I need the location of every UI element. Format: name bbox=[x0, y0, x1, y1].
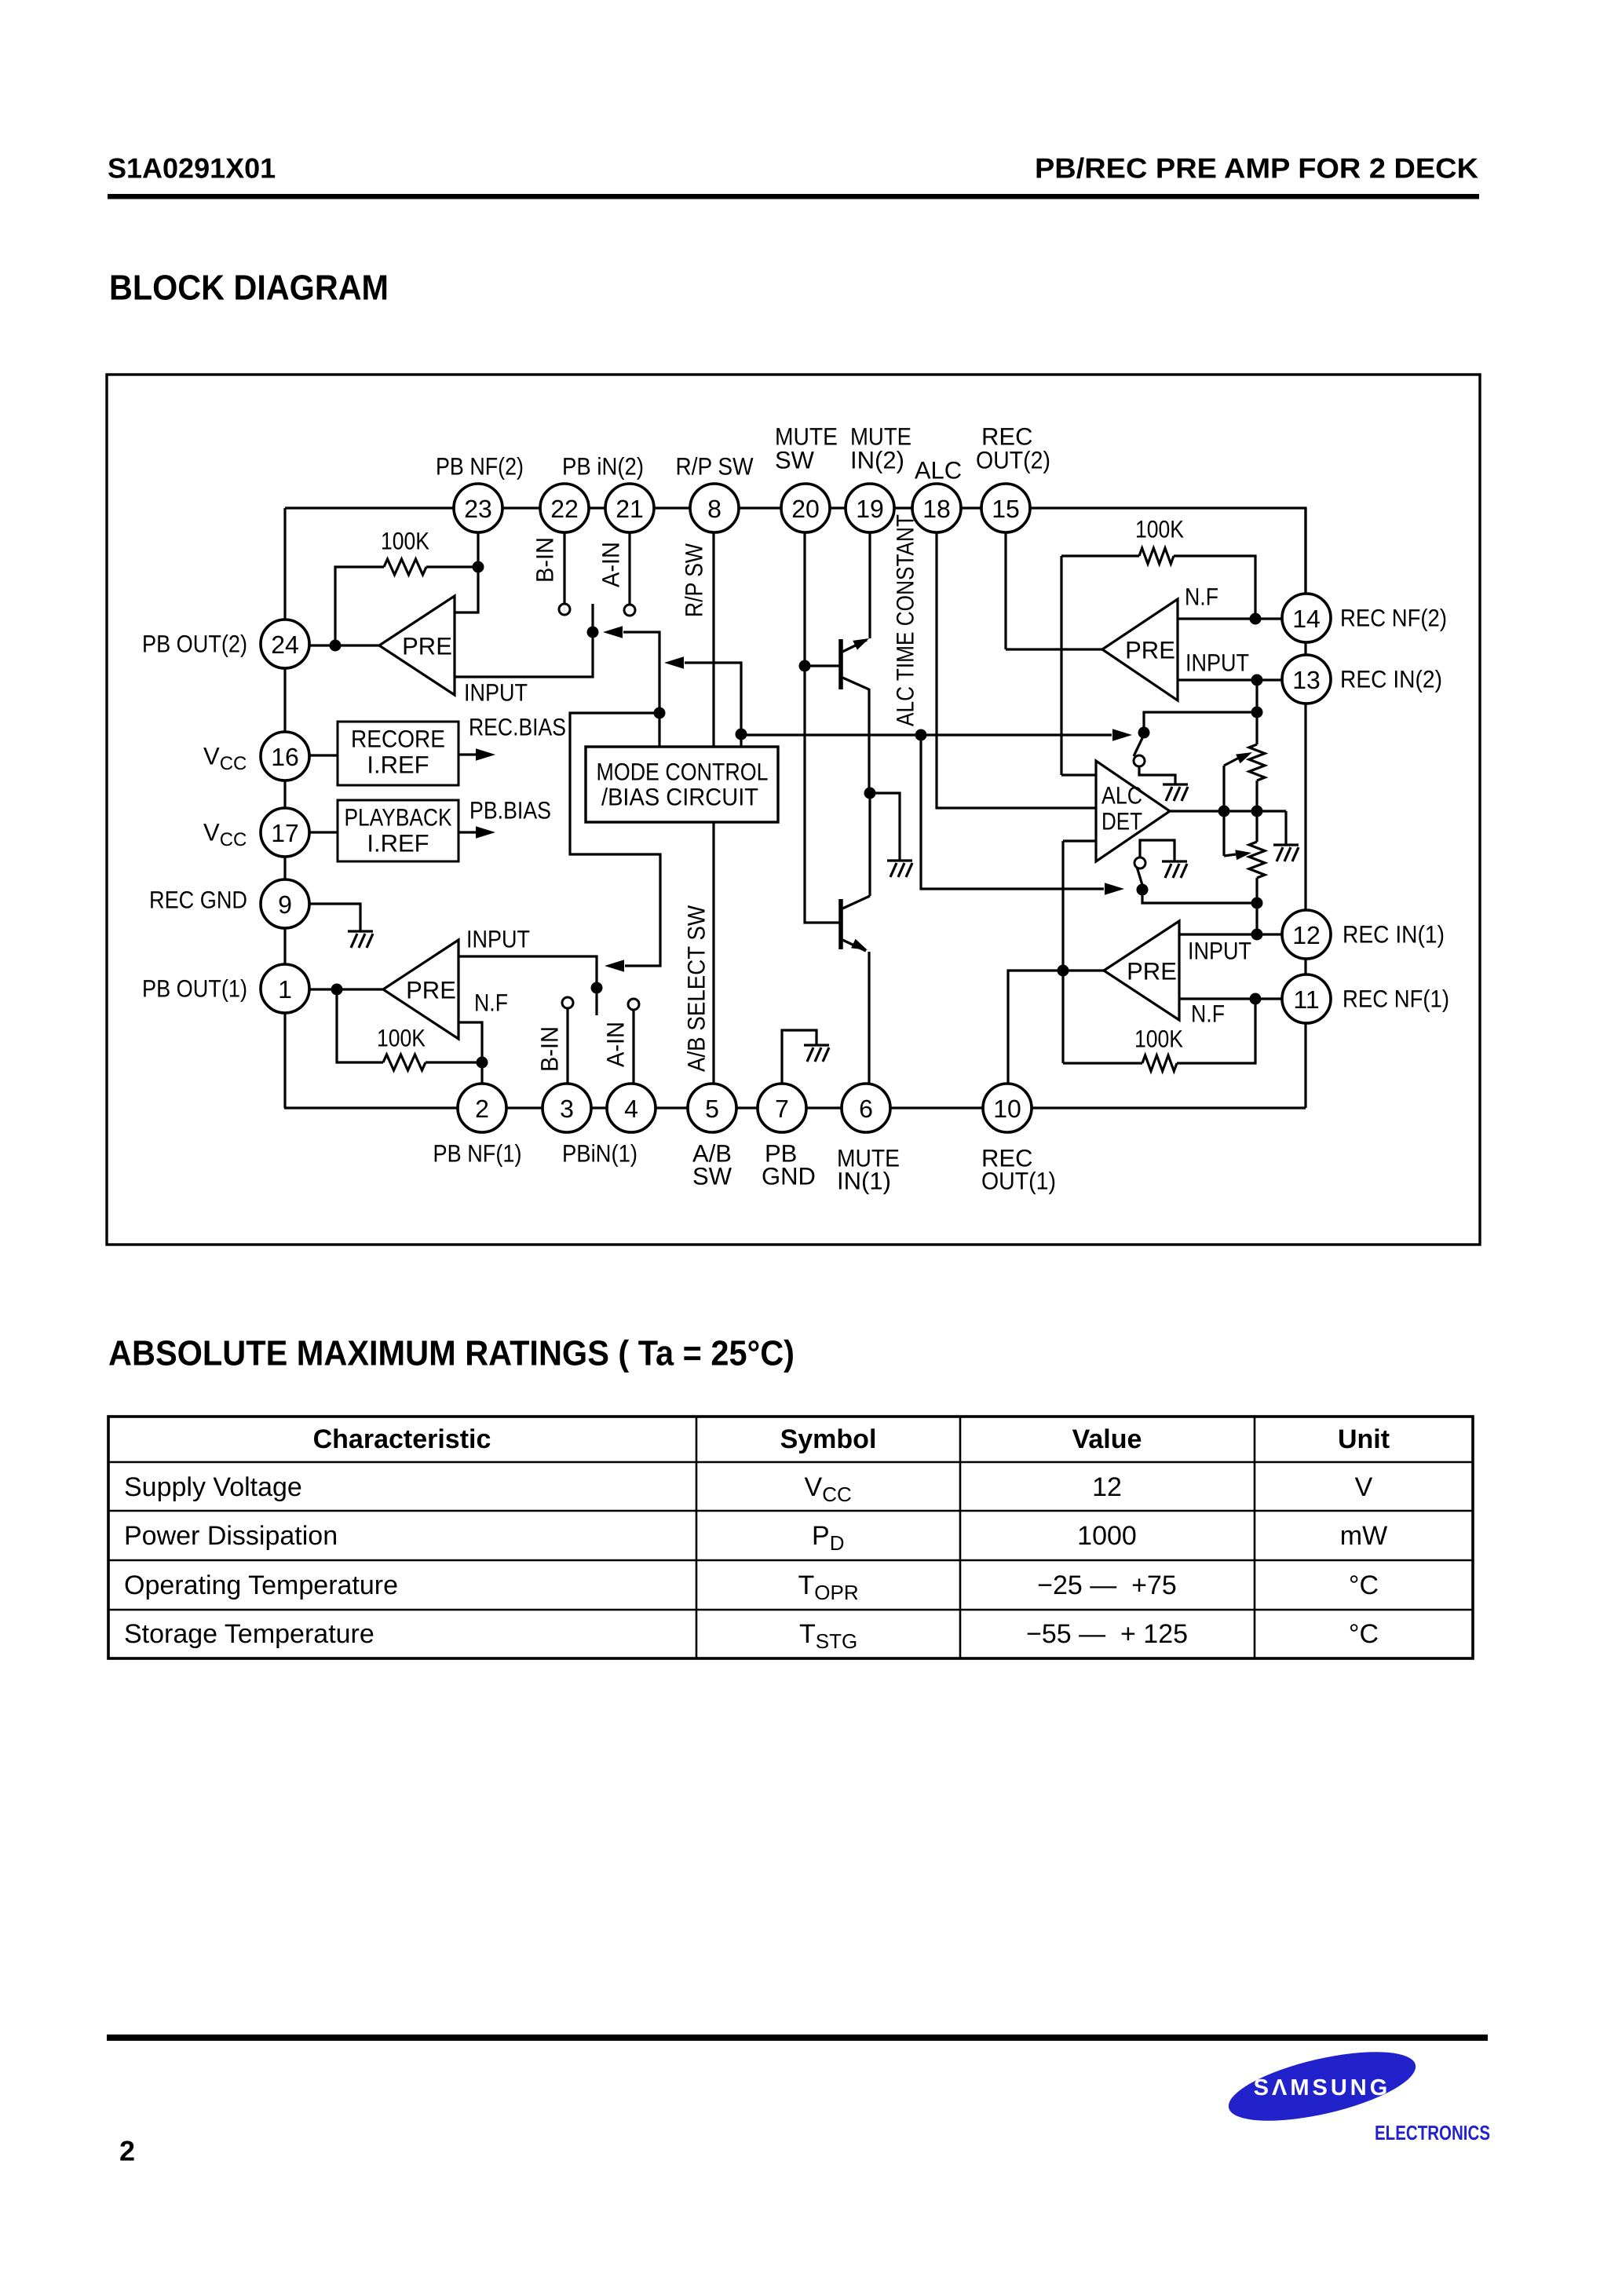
label PBiN(1) bbox=[562, 1140, 637, 1168]
svg-text:15: 15 bbox=[992, 495, 1020, 523]
wire junction to ground stub bbox=[870, 793, 900, 861]
svg-text:Operating Temperature: Operating Temperature bbox=[124, 1570, 398, 1600]
label N.F of PB1 PRE bbox=[474, 989, 508, 1017]
svg-text:4: 4 bbox=[624, 1095, 638, 1123]
wire pin 8 R/P SW to pin 5 A/B SW through mode box bbox=[712, 508, 714, 1108]
svg-text:REC IN(1): REC IN(1) bbox=[1343, 921, 1445, 949]
svg-text:ALC: ALC bbox=[1101, 782, 1142, 810]
page header: title bbox=[1035, 152, 1478, 185]
node REC IN(1) junction bbox=[1251, 929, 1263, 941]
wire right column bus pins 14-13-12-11 to pin 10 bbox=[1304, 508, 1306, 1108]
arrow control to REC switch 2 bbox=[1112, 729, 1132, 741]
svg-text:I.REF: I.REF bbox=[367, 830, 429, 857]
wire INPUT of PB2 PRE to select switch bbox=[455, 632, 593, 677]
node REC1 output feedback junction bbox=[1058, 965, 1069, 977]
diagram border frame bbox=[107, 375, 1480, 1245]
pin 22 bbox=[540, 484, 589, 532]
header rule bbox=[108, 194, 1479, 199]
wire pin 20 MUTE SW down to Q2 base bbox=[805, 508, 841, 923]
node REC NF(2) junction bbox=[1250, 613, 1262, 625]
ground ALC output bbox=[1273, 845, 1299, 861]
op-amp U3 PRE record deck2 bbox=[1102, 599, 1178, 700]
svg-text:−55 — + 125: −55 — + 125 bbox=[1026, 1619, 1188, 1649]
wire REC2 PRE output bbox=[1006, 648, 1102, 650]
svg-text:INPUT: INPUT bbox=[466, 926, 530, 953]
wire Q1 base bbox=[805, 664, 841, 667]
wire SW4 contact to ground bbox=[1140, 840, 1174, 861]
wire pin 18 ALC to ALC DET input bbox=[937, 508, 1096, 808]
node pin2 feedback junction bbox=[477, 1057, 488, 1069]
svg-text:REC GND: REC GND bbox=[149, 887, 247, 914]
svg-text:2: 2 bbox=[475, 1095, 489, 1123]
switch SW4 lever bbox=[1137, 867, 1142, 885]
table row Supply Voltage bbox=[124, 1472, 1373, 1506]
label INPUT of PB1 PRE bbox=[466, 926, 530, 953]
wire N.F to pin 11 bbox=[1179, 997, 1288, 1000]
wire between attenuator resistors bbox=[1255, 781, 1258, 842]
terminal B-IN deck1 open contact bbox=[562, 997, 573, 1008]
node pin23 feedback junction bbox=[473, 561, 484, 573]
svg-text:ABSOLUTE MAXIMUM RATINGS ( Ta: ABSOLUTE MAXIMUM RATINGS ( Ta = 25°C) bbox=[108, 1333, 795, 1373]
svg-text:100K: 100K bbox=[1135, 516, 1184, 543]
pin 5 bbox=[688, 1084, 736, 1132]
node ALC output wiper junction bbox=[1218, 806, 1230, 817]
pin 2 bbox=[458, 1084, 506, 1132]
terminal A-IN deck2 open contact bbox=[624, 605, 635, 616]
wire feedback loop down from output node bbox=[337, 989, 383, 1062]
label MUTE IN(2) bbox=[850, 423, 911, 474]
svg-text:/BIAS CIRCUIT: /BIAS CIRCUIT bbox=[601, 784, 758, 811]
op-amp U5 ALC DET bbox=[1096, 761, 1170, 861]
svg-text:IN(1): IN(1) bbox=[837, 1168, 891, 1195]
svg-text:PB OUT(1): PB OUT(1) bbox=[142, 975, 247, 1003]
block PLAYBACK I.REF bbox=[338, 800, 458, 861]
wire pin 16 to RECORE I.REF bbox=[309, 754, 338, 756]
svg-text:12: 12 bbox=[1292, 921, 1321, 949]
resistor VR2 lower attenuator bbox=[1249, 842, 1265, 878]
svg-text:PLAYBACK: PLAYBACK bbox=[345, 804, 452, 832]
label R/P SW rotated bbox=[681, 543, 708, 617]
label REC IN(2) bbox=[1340, 666, 1442, 693]
wire control branch down to REC switch 1 bbox=[921, 735, 1104, 889]
wire left column bus pins 24-16-17-9-1 bbox=[283, 508, 286, 1108]
svg-text:PRE: PRE bbox=[1127, 958, 1177, 985]
Samsung logo ellipse bbox=[1222, 2038, 1421, 2134]
pin 3 bbox=[542, 1084, 591, 1132]
wire pin 15 REC OUT(2) stub down bbox=[1004, 532, 1006, 649]
wire B-IN contact to pin 3 bbox=[566, 1008, 568, 1084]
svg-text:24: 24 bbox=[271, 631, 299, 659]
svg-text:PRE: PRE bbox=[406, 977, 456, 1004]
wire REC.BIAS output arrow bbox=[458, 748, 495, 761]
svg-text:PB NF(2): PB NF(2) bbox=[436, 453, 524, 481]
label PB.BIAS bbox=[469, 797, 551, 824]
svg-text:16: 16 bbox=[271, 743, 299, 771]
svg-text:2: 2 bbox=[119, 2135, 135, 2167]
wire pin 21 to A-IN contact bbox=[628, 508, 630, 605]
label A-IN deck2 rotated bbox=[597, 542, 625, 587]
svg-text:N.F: N.F bbox=[1191, 1000, 1225, 1028]
switch SW2 common node bbox=[587, 627, 599, 638]
svg-text:B-IN: B-IN bbox=[536, 1026, 564, 1072]
pin 20 bbox=[781, 484, 830, 532]
node PB OUT(1) junction bbox=[331, 984, 343, 996]
svg-text:Value: Value bbox=[1072, 1424, 1142, 1454]
svg-text:100K: 100K bbox=[1134, 1026, 1183, 1053]
wire INPUT to pin 12 bbox=[1179, 933, 1288, 935]
label N.F of REC1 PRE bbox=[1191, 1000, 1225, 1028]
svg-text:V: V bbox=[1355, 1472, 1373, 1502]
resistor 100K deck1 PB feedback bbox=[383, 1055, 426, 1070]
svg-text:SΛMSUNG: SΛMSUNG bbox=[1254, 2075, 1391, 2100]
wire INPUT to pin 13 bbox=[1178, 678, 1288, 681]
pin 9 bbox=[261, 879, 309, 928]
svg-text:18: 18 bbox=[922, 495, 951, 523]
value label 100K bbox=[381, 528, 429, 555]
label MUTE IN(1) bbox=[837, 1145, 900, 1195]
pin 4 bbox=[607, 1084, 656, 1132]
pin 19 bbox=[846, 484, 894, 532]
svg-text:11: 11 bbox=[1293, 985, 1319, 1014]
wire resistor to pin 23 node bbox=[426, 565, 478, 568]
op-amp U1 PRE playback deck2 bbox=[379, 596, 455, 695]
svg-text:Symbol: Symbol bbox=[780, 1424, 877, 1454]
label PB GND bbox=[762, 1140, 816, 1190]
svg-text:21: 21 bbox=[616, 495, 644, 523]
svg-text:5: 5 bbox=[705, 1095, 719, 1123]
svg-text:R/P SW: R/P SW bbox=[681, 543, 708, 617]
wire bottom bus pins 2-3-4-5-7-6-10 bbox=[284, 1106, 1306, 1109]
ground Q collector bbox=[887, 861, 912, 877]
table row Power Dissipation bbox=[124, 1521, 1387, 1555]
wire pin 1 to op-amp input node bbox=[309, 988, 383, 990]
svg-text:°C: °C bbox=[1349, 1570, 1379, 1600]
wire pin 2 stub up bbox=[480, 1062, 483, 1084]
wire mode control to REC mute switch 2 bbox=[741, 733, 1112, 736]
svg-text:100K: 100K bbox=[381, 528, 429, 555]
wire N.F to pin 14 bbox=[1178, 617, 1288, 620]
footer rule bbox=[107, 2035, 1488, 2041]
pin 23 bbox=[454, 484, 502, 532]
svg-text:100K: 100K bbox=[377, 1025, 426, 1052]
svg-text:ELECTRONICS: ELECTRONICS bbox=[1375, 2121, 1490, 2144]
label PB iN(2) bbox=[562, 453, 644, 481]
ground REC GND bbox=[348, 931, 373, 948]
svg-text:N.F: N.F bbox=[474, 989, 508, 1017]
pin 21 bbox=[605, 484, 654, 532]
wire pin 19 MUTE IN(2) stub bbox=[868, 508, 871, 638]
node ALC output attenuator junction bbox=[1251, 806, 1263, 817]
svg-text:N.F: N.F bbox=[1185, 583, 1218, 611]
label REC IN(1) bbox=[1343, 921, 1445, 949]
label MUTE SW bbox=[775, 423, 838, 474]
pin 13 bbox=[1282, 655, 1331, 704]
table column dividers bbox=[696, 1417, 1255, 1658]
ground SW4 bbox=[1162, 861, 1187, 878]
label B-IN deck2 rotated bbox=[532, 537, 559, 583]
svg-text:12: 12 bbox=[1092, 1472, 1122, 1502]
svg-text:S1A0291X01: S1A0291X01 bbox=[108, 152, 276, 185]
wire pin 9 to ground bbox=[309, 904, 360, 931]
transistor Q1 mute deck2 bbox=[841, 638, 869, 793]
node REC NF(1) junction bbox=[1250, 993, 1262, 1005]
switch SW3 lever bbox=[1134, 738, 1142, 756]
pin 16 bbox=[261, 732, 309, 781]
svg-text:INPUT: INPUT bbox=[464, 679, 528, 707]
pin 12 bbox=[1282, 910, 1331, 959]
wire feedback loop up from output node bbox=[335, 567, 384, 645]
table frame bbox=[108, 1417, 1473, 1658]
svg-text:PB NF(1): PB NF(1) bbox=[433, 1140, 522, 1168]
svg-text:I.REF: I.REF bbox=[367, 751, 429, 779]
svg-text:22: 22 bbox=[550, 495, 579, 523]
svg-text:PB/REC PRE AMP FOR 2 DECK: PB/REC PRE AMP FOR 2 DECK bbox=[1035, 152, 1478, 185]
svg-text:PRE: PRE bbox=[1125, 637, 1175, 664]
svg-text:PB.BIAS: PB.BIAS bbox=[469, 797, 551, 824]
svg-text:°C: °C bbox=[1349, 1619, 1379, 1649]
svg-text:6: 6 bbox=[859, 1095, 873, 1123]
svg-text:Characteristic: Characteristic bbox=[313, 1424, 491, 1454]
svg-text:INPUT: INPUT bbox=[1185, 649, 1249, 677]
label R/P SW bbox=[676, 453, 754, 481]
wire REC1 feedback loop bottom bbox=[1177, 999, 1255, 1063]
wire ALC DET output bbox=[1170, 810, 1286, 812]
svg-text:17: 17 bbox=[271, 819, 299, 847]
node Q1 base junction bbox=[799, 660, 811, 672]
svg-text:REC NF(1): REC NF(1) bbox=[1343, 985, 1449, 1013]
wire top bus pins 23-22-21-8-20-19-18-15 to corner bbox=[285, 508, 1306, 618]
label B-IN deck1 rotated bbox=[536, 1026, 564, 1072]
wire REC2 feedback net vertical bbox=[1060, 556, 1062, 775]
svg-text:3: 3 bbox=[560, 1095, 574, 1123]
label REC OUT(2) bbox=[976, 423, 1050, 474]
svg-text:RECORE: RECORE bbox=[351, 726, 445, 753]
wire switch SW4 to attenuator bottom bbox=[1142, 890, 1257, 903]
svg-text:1000: 1000 bbox=[1077, 1521, 1137, 1551]
wire control arrow from mode circuit to SW1 bbox=[570, 713, 660, 966]
svg-text:19: 19 bbox=[856, 495, 884, 523]
table header row bbox=[313, 1424, 1390, 1454]
resistor 100K REC1 feedback bbox=[1142, 1055, 1177, 1071]
wire INPUT of PB1 PRE to select switch bbox=[458, 956, 597, 988]
wire junction down to Q2 bbox=[868, 793, 871, 896]
svg-text:R/P SW: R/P SW bbox=[676, 453, 754, 481]
svg-text:OUT(1): OUT(1) bbox=[981, 1168, 1056, 1195]
svg-text:23: 23 bbox=[464, 495, 492, 523]
wire pin 24 to op-amp input node bbox=[309, 644, 379, 646]
svg-text:SW: SW bbox=[692, 1163, 732, 1190]
wire REC2 feedback loop top bbox=[1061, 554, 1139, 557]
arrow control into mode net bbox=[664, 656, 684, 669]
svg-text:PB iN(2): PB iN(2) bbox=[562, 453, 644, 481]
wire pin 22 to B-IN contact bbox=[563, 508, 565, 604]
wire second control branch bbox=[685, 663, 741, 747]
wire REC IN(2) node down to attenuator bbox=[1255, 680, 1258, 744]
value label 100K bbox=[1135, 516, 1184, 543]
svg-text:9: 9 bbox=[278, 890, 292, 919]
svg-text:7: 7 bbox=[775, 1095, 789, 1123]
block MODE CONTROL / BIAS CIRCUIT bbox=[586, 747, 778, 822]
svg-text:REC IN(2): REC IN(2) bbox=[1340, 666, 1442, 693]
pin 15 bbox=[981, 484, 1030, 532]
svg-text:PBiN(1): PBiN(1) bbox=[562, 1140, 637, 1168]
wire control arrow to mode circuit bbox=[623, 632, 659, 747]
wire ALC DET lower input from REC1 N.F net bbox=[1063, 839, 1096, 842]
switch SW1 lever bbox=[595, 988, 597, 1015]
label N.F of REC2 PRE bbox=[1185, 583, 1218, 611]
pin 14 bbox=[1282, 594, 1331, 642]
pin 1 bbox=[261, 964, 309, 1013]
svg-text:Unit: Unit bbox=[1338, 1424, 1390, 1454]
table row Storage Temperature bbox=[124, 1619, 1379, 1653]
svg-text:REC NF(2): REC NF(2) bbox=[1340, 605, 1447, 632]
node REC IN(2) junction bbox=[1251, 675, 1263, 686]
pin 18 bbox=[912, 484, 961, 532]
svg-text:14: 14 bbox=[1292, 605, 1321, 633]
svg-text:mW: mW bbox=[1340, 1521, 1387, 1551]
node control branch junction bbox=[915, 729, 927, 741]
switch SW3 REC2 mute common bbox=[1138, 727, 1150, 739]
ground SW3 bbox=[1163, 784, 1188, 801]
svg-text:GND: GND bbox=[762, 1163, 816, 1190]
svg-text:13: 13 bbox=[1292, 666, 1321, 694]
resistor 100K REC2 feedback bbox=[1139, 548, 1174, 564]
label REC NF(2) bbox=[1340, 605, 1447, 632]
switch SW2 lever bbox=[591, 604, 594, 632]
svg-text:10: 10 bbox=[993, 1095, 1021, 1123]
svg-text:PRE: PRE bbox=[402, 633, 452, 660]
node mode box second junction bbox=[736, 729, 747, 740]
table row Operating Temperature bbox=[124, 1570, 1379, 1604]
svg-text:BLOCK DIAGRAM: BLOCK DIAGRAM bbox=[109, 268, 389, 308]
wire resistor to pin 2 node bbox=[426, 1061, 482, 1063]
switch SW1 common node bbox=[591, 982, 603, 994]
wire REC1 feedback to vertical bbox=[1063, 1062, 1142, 1064]
svg-text:A-IN: A-IN bbox=[602, 1022, 630, 1067]
pin 6 bbox=[842, 1084, 890, 1132]
table row dividers bbox=[108, 1462, 1473, 1610]
wire N.F to op-amp PB2 bbox=[455, 567, 478, 612]
wire ALC output to ground bbox=[1284, 811, 1287, 845]
label PB NF(2) bbox=[436, 453, 524, 481]
node REC2 switch branch junction bbox=[1251, 707, 1263, 718]
wire ALC DET upper input from REC2 N.F net bbox=[1061, 773, 1096, 776]
svg-text:Storage Temperature: Storage Temperature bbox=[124, 1619, 374, 1649]
wiper arrow to upper variable resistor bbox=[1224, 752, 1252, 811]
wire REC2 branch to switch bbox=[1144, 712, 1257, 733]
svg-text:REC.BIAS: REC.BIAS bbox=[469, 714, 566, 741]
node PB OUT(2) junction bbox=[330, 640, 342, 652]
wire pin 10 REC OUT(1) stub up bbox=[1008, 971, 1104, 1084]
svg-text:20: 20 bbox=[791, 495, 820, 523]
label PB NF(1) bbox=[433, 1140, 522, 1168]
svg-text:ALC: ALC bbox=[915, 457, 962, 484]
label A-IN deck1 rotated bbox=[602, 1022, 630, 1067]
block RECORE I.REF bbox=[338, 722, 458, 785]
wire N.F of PB1 PRE bbox=[458, 1022, 482, 1062]
label VCC pin16 bbox=[203, 743, 247, 774]
svg-text:B-IN: B-IN bbox=[532, 537, 559, 583]
svg-text:8: 8 bbox=[707, 495, 721, 523]
arrow control to SW1 bbox=[605, 960, 624, 972]
node Q1-Q2 collector junction bbox=[864, 788, 876, 799]
node attenuator bottom junction bbox=[1251, 898, 1263, 909]
section heading ABSOLUTE MAXIMUM RATINGS bbox=[108, 1333, 795, 1373]
svg-text:Supply Voltage: Supply Voltage bbox=[124, 1472, 302, 1502]
terminal SW3 open contact bbox=[1134, 755, 1145, 766]
svg-text:IN(2): IN(2) bbox=[850, 447, 904, 474]
pin 24 bbox=[261, 620, 309, 668]
svg-text:OUT(2): OUT(2) bbox=[976, 447, 1050, 474]
svg-text:A-IN: A-IN bbox=[597, 542, 625, 587]
label A/B SELECT SW rotated bbox=[683, 905, 711, 1072]
svg-text:1: 1 bbox=[278, 975, 292, 1004]
svg-text:A/B SELECT SW: A/B SELECT SW bbox=[683, 905, 711, 1072]
label PB OUT(2) bbox=[142, 631, 247, 658]
wire SW3 contact to ground bbox=[1139, 766, 1175, 784]
label PB OUT(1) bbox=[142, 975, 247, 1003]
svg-text:Power Dissipation: Power Dissipation bbox=[124, 1521, 338, 1551]
value label 100K bbox=[1134, 1026, 1183, 1053]
svg-text:INPUT: INPUT bbox=[1188, 938, 1251, 965]
svg-text:−25 — +75: −25 — +75 bbox=[1037, 1570, 1177, 1600]
terminal SW4 open contact bbox=[1134, 857, 1145, 868]
resistor VR1 upper attenuator bbox=[1249, 744, 1265, 781]
label A/B SW bbox=[692, 1140, 732, 1190]
value label 100K bbox=[377, 1025, 426, 1052]
wire A-IN contact to pin 4 bbox=[632, 1010, 634, 1084]
svg-text:MODE CONTROL: MODE CONTROL bbox=[597, 759, 769, 786]
pin 11 bbox=[1282, 974, 1331, 1023]
wiper arrow to lower variable resistor bbox=[1224, 811, 1251, 860]
arrow control to REC switch 1 bbox=[1105, 883, 1124, 895]
wire PB.BIAS output arrow bbox=[458, 826, 495, 839]
pin 8 bbox=[690, 484, 739, 532]
section heading BLOCK DIAGRAM bbox=[109, 268, 389, 308]
wire pin 23 stub down bbox=[477, 508, 479, 567]
ground PB GND bbox=[804, 1045, 829, 1062]
wire REC2 feedback to N.F node bbox=[1174, 556, 1255, 619]
Samsung ELECTRONICS wordmark bbox=[1375, 2121, 1490, 2144]
transistor Q2 mute deck1 bbox=[841, 896, 870, 1084]
terminal B-IN deck2 open contact bbox=[559, 604, 570, 615]
label INPUT of REC2 PRE bbox=[1185, 649, 1249, 677]
label REC GND bbox=[149, 887, 247, 914]
pin 7 bbox=[758, 1084, 806, 1132]
wire pin 7 to ground bbox=[782, 1030, 816, 1084]
page number 2 bbox=[119, 2135, 135, 2167]
svg-text:ALC TIME CONSTANT: ALC TIME CONSTANT bbox=[892, 514, 919, 726]
label REC NF(1) bbox=[1343, 985, 1449, 1013]
arrow control to SW2 bbox=[603, 626, 623, 638]
wire pin 17 to PLAYBACK I.REF bbox=[309, 831, 338, 833]
resistor 100K deck2 PB feedback bbox=[384, 559, 426, 575]
svg-text:PB OUT(2): PB OUT(2) bbox=[142, 631, 247, 658]
label INPUT of PB2 PRE bbox=[464, 679, 528, 707]
page header: part number bbox=[108, 152, 276, 185]
op-amp U4 PRE record deck1 bbox=[1104, 921, 1179, 1020]
terminal A-IN deck1 open contact bbox=[628, 999, 639, 1010]
label VCC pin17 bbox=[203, 819, 247, 850]
wire attenuator bottom to REC IN(1) node bbox=[1255, 878, 1258, 934]
label ALC bbox=[915, 457, 962, 484]
pin 17 bbox=[261, 808, 309, 857]
label REC.BIAS bbox=[469, 714, 566, 741]
op-amp U2 PRE playback deck1 bbox=[383, 940, 458, 1039]
pin 10 bbox=[983, 1084, 1032, 1132]
node mode control top junction bbox=[654, 707, 666, 719]
switch SW4 REC1 mute common bbox=[1137, 884, 1149, 896]
